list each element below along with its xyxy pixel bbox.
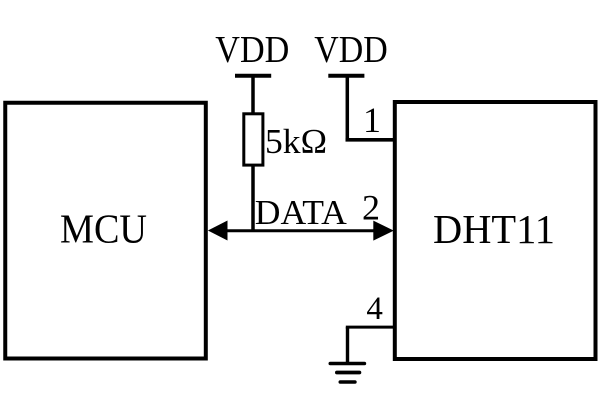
DATA bus line xyxy=(215,229,385,232)
wire DHT11 pin 4 to ground drop xyxy=(346,326,395,329)
svg-text:MCU: MCU xyxy=(60,205,147,251)
wire down to ground xyxy=(346,327,349,363)
ground symbol bar 1 xyxy=(330,362,364,366)
arrowhead into MCU xyxy=(208,221,228,241)
svg-text:DATA: DATA xyxy=(255,193,348,232)
wire VDD2 down xyxy=(346,76,350,140)
wire resistor to DATA node xyxy=(251,165,255,231)
svg-text:DHT11: DHT11 xyxy=(433,206,555,252)
VDD power bar 2 xyxy=(328,74,364,78)
resistor R1 body xyxy=(244,114,263,165)
svg-text:4: 4 xyxy=(366,291,383,327)
svg-text:VDD: VDD xyxy=(314,29,388,71)
wire VDD1 to resistor xyxy=(251,76,255,114)
ground symbol bar 2 xyxy=(337,371,360,375)
svg-text:1: 1 xyxy=(363,100,381,140)
ground symbol bar 3 xyxy=(340,380,355,384)
VDD power bar 1 xyxy=(235,74,271,78)
svg-text:VDD: VDD xyxy=(215,29,289,71)
svg-text:5kΩ: 5kΩ xyxy=(265,122,327,161)
wire to DHT11 pin 1 xyxy=(346,138,395,142)
MCU U1 box xyxy=(5,103,206,359)
DHT11 U2 box xyxy=(395,102,596,359)
arrowhead into DHT11 pin 2 xyxy=(373,221,394,241)
svg-text:2: 2 xyxy=(362,188,380,228)
